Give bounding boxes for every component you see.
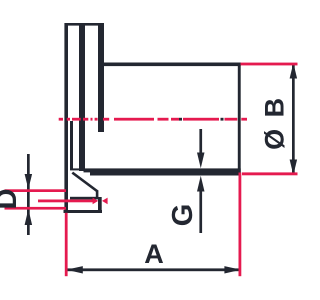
svg-text:D: D [0, 189, 23, 210]
svg-text:G: G [167, 204, 199, 227]
svg-text:A: A [144, 239, 164, 269]
svg-text:Ø B: Ø B [259, 96, 289, 150]
